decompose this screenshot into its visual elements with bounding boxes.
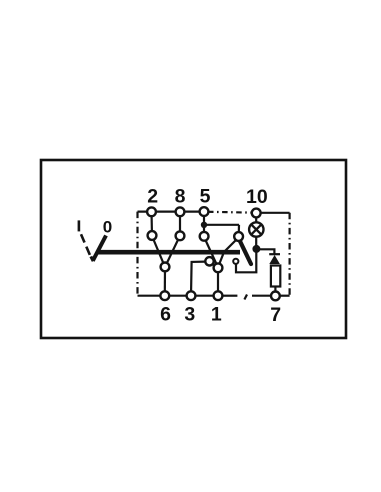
svg-text:7: 7 xyxy=(270,304,281,326)
svg-text:0: 0 xyxy=(103,218,112,237)
svg-text:1: 1 xyxy=(211,304,222,326)
svg-text:6: 6 xyxy=(160,304,171,326)
svg-text:3: 3 xyxy=(184,304,195,326)
svg-text:5: 5 xyxy=(200,185,211,207)
svg-text:8: 8 xyxy=(175,185,186,207)
svg-text:2: 2 xyxy=(147,185,158,207)
svg-text:10: 10 xyxy=(246,186,268,208)
